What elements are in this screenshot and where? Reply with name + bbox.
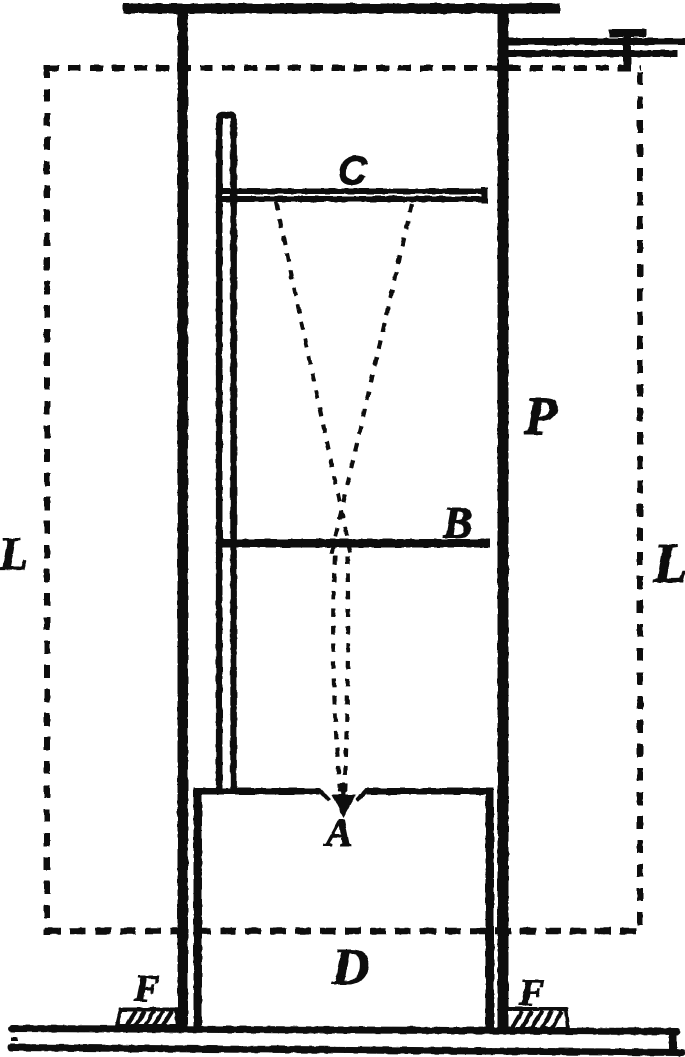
base plate bottom edge bbox=[11, 1048, 682, 1053]
screw feed line lower bbox=[506, 50, 677, 57]
box D left wall bbox=[194, 788, 203, 1028]
svg-text:L: L bbox=[652, 532, 685, 595]
svg-text:F: F bbox=[133, 968, 159, 1010]
dashed ray lower-right bbox=[345, 556, 349, 797]
right post bbox=[498, 8, 509, 1028]
dashed ray upper-right bbox=[331, 204, 412, 556]
funnel point A bbox=[332, 795, 357, 818]
dashed ray tip into funnel bbox=[343, 783, 344, 796]
dashed ray upper-left bbox=[276, 202, 351, 556]
screw feed line upper bbox=[506, 38, 685, 45]
plate C right end cap bbox=[482, 187, 489, 204]
dashed ray lower-left bbox=[333, 556, 340, 797]
bar B bbox=[218, 539, 490, 548]
foot F left bbox=[117, 1010, 178, 1027]
svg-text:A: A bbox=[323, 810, 353, 855]
ceiling bar bbox=[123, 4, 560, 14]
dashed enclosure left edge bbox=[44, 65, 50, 935]
plate C lower line bbox=[217, 196, 487, 202]
dashed enclosure right edge bbox=[637, 72, 643, 935]
svg-text:L: L bbox=[0, 528, 28, 581]
svg-text:C: C bbox=[338, 149, 368, 193]
box D top edge right segment bbox=[366, 788, 494, 795]
base plate left end tick bbox=[11, 1037, 18, 1041]
dashed enclosure top edge bbox=[46, 65, 641, 71]
left post bbox=[178, 8, 189, 1028]
notch left slant bbox=[319, 790, 330, 801]
box D top edge left segment bbox=[194, 788, 320, 795]
base plate right end cap bbox=[669, 1030, 677, 1054]
notch right slant bbox=[357, 790, 368, 801]
plate C upper line bbox=[217, 189, 487, 195]
svg-text:P: P bbox=[523, 386, 558, 446]
dashed enclosure bottom edge bbox=[45, 928, 641, 935]
base plate top edge bbox=[12, 1029, 677, 1032]
box D right wall bbox=[486, 788, 495, 1028]
foot F right bbox=[504, 1009, 568, 1029]
base plate bottom right bump bbox=[673, 1048, 684, 1057]
svg-text:B: B bbox=[442, 498, 472, 547]
measuring rod bbox=[219, 115, 233, 788]
adjusting screw T bbox=[623, 29, 631, 66]
svg-text:D: D bbox=[331, 939, 370, 996]
